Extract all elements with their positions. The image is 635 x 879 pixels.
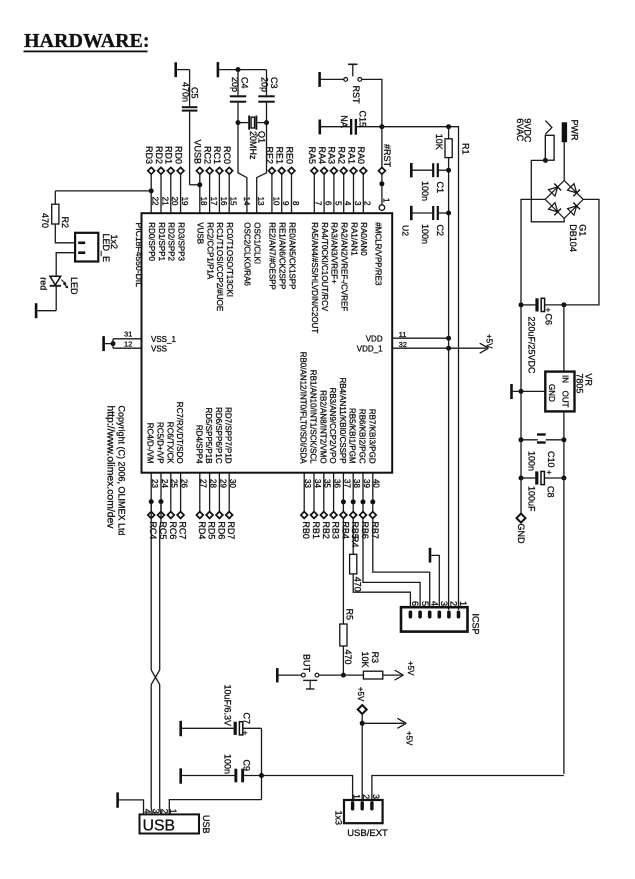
svg-text:RD3: RD3 <box>144 146 154 164</box>
svg-text:10K: 10K <box>360 652 370 668</box>
junction RC5 wire <box>159 499 164 504</box>
bridge diode D2 (top to right) <box>567 184 580 197</box>
svg-text:RD1/SPP1: RD1/SPP1 <box>157 222 166 261</box>
IC pin 25 (RC6/TX/CK) <box>165 422 178 540</box>
gnd rail C6 to C10 <box>520 305 522 440</box>
IC pin 7 (RA5/AN4/#SS/HLVDIN/C2OUT) <box>307 146 323 333</box>
IC pin 1 (#MCLR/VPP/RE3) <box>374 184 391 286</box>
svg-text:VSS_1: VSS_1 <box>151 335 176 344</box>
svg-text:RD0/SPP0: RD0/SPP0 <box>147 222 156 261</box>
svg-text:RB3: RB3 <box>331 521 341 539</box>
svg-text:PWR: PWR <box>569 120 579 141</box>
svg-text:+5V: +5V <box>406 661 415 676</box>
junction pin22 <box>149 188 154 193</box>
svg-text:10K: 10K <box>434 134 444 150</box>
svg-text:7: 7 <box>314 201 323 206</box>
power jack PWR <box>545 120 579 161</box>
ground LED <box>36 286 56 318</box>
svg-text:OSC2/CLKO/RA6: OSC2/CLKO/RA6 <box>243 222 252 286</box>
IC pin 2 (RA0/AN0) <box>356 146 372 256</box>
svg-text:RC1/T1OSI/CCP2/#UOE: RC1/T1OSI/CCP2/#UOE <box>215 222 224 311</box>
svg-text:RA5: RA5 <box>307 146 317 164</box>
junction VUSB/C5 <box>197 182 202 187</box>
label G1 DB104 <box>568 224 587 252</box>
svg-text:#RST: #RST <box>382 144 392 168</box>
IC pin 21 (RD1/SPP1) <box>154 146 170 262</box>
wire RB6 to ICSP pin5 <box>363 518 420 608</box>
svg-text:RC7/RX/DT/SDO: RC7/RX/DT/SDO <box>175 402 184 464</box>
svg-text:3: 3 <box>353 201 362 206</box>
ground VR <box>512 384 546 399</box>
svg-text:RB0/AN12/INT0/FLT0/SDI/SDA: RB0/AN12/INT0/FLT0/SDI/SDA <box>299 352 308 465</box>
svg-text:2: 2 <box>361 794 371 799</box>
svg-text:RD2: RD2 <box>154 146 164 164</box>
wire C7 to +5V node <box>261 728 263 799</box>
svg-text:R1: R1 <box>461 143 471 155</box>
wire +5V to USB/EXT pin1 <box>262 776 353 801</box>
svg-text:7805: 7805 <box>574 373 584 393</box>
svg-text:RB3/AN9/CCP2/VPO: RB3/AN9/CCP2/VPO <box>328 388 337 464</box>
svg-text:RB4: RB4 <box>340 521 350 539</box>
IC pin 35 (RB2/AN8/INT2/VMO) <box>318 390 331 539</box>
wire BUT to R3 <box>319 674 364 676</box>
IC pin 13 (OSC1/CLKI) <box>253 197 266 265</box>
svg-text:C9: C9 <box>242 760 252 772</box>
svg-text:34: 34 <box>313 479 322 488</box>
svg-text:RA2: RA2 <box>337 146 347 164</box>
svg-text:RC4/D-/VM: RC4/D-/VM <box>146 423 155 464</box>
junction C1/+5V rail <box>446 168 451 173</box>
svg-text:RD2/SPP2: RD2/SPP2 <box>167 222 176 261</box>
connector LED_E 1x2 <box>75 233 119 262</box>
wire bridge plus to C6 node <box>564 199 599 305</box>
IC pin 22 (RD0/SPP0) <box>144 146 160 262</box>
junction RB4 wire <box>341 499 346 504</box>
svg-text:RB6/KBI2/PGC: RB6/KBI2/PGC <box>358 409 367 464</box>
svg-text:11: 11 <box>399 330 407 339</box>
ground C9 <box>181 768 235 783</box>
svg-text:U2: U2 <box>401 225 411 236</box>
ground C1 <box>411 163 432 177</box>
svg-text:RST: RST <box>351 86 361 105</box>
svg-text:VSS: VSS <box>151 345 167 354</box>
wire +5V right segment <box>372 776 564 801</box>
svg-text:21: 21 <box>160 197 169 206</box>
svg-text:R4: R4 <box>350 536 360 548</box>
svg-text:25: 25 <box>170 479 179 488</box>
svg-text:RC7: RC7 <box>178 521 188 539</box>
ground BUT <box>277 668 301 682</box>
junction crystal right <box>264 120 269 125</box>
IC pin 11 VDD wire <box>366 330 451 343</box>
svg-text:39: 39 <box>362 479 371 488</box>
pushbutton BUT <box>301 654 319 689</box>
svg-text:8: 8 <box>291 201 300 206</box>
svg-text:2: 2 <box>160 809 170 814</box>
IC U2 designator label <box>401 225 411 236</box>
svg-text:R2: R2 <box>60 217 70 229</box>
svg-text:OUT: OUT <box>561 391 570 408</box>
svg-text:470: 470 <box>343 650 353 665</box>
svg-text:29: 29 <box>218 479 227 488</box>
wire R2 to LED_E pin1 <box>55 224 75 243</box>
wire pin22 to R2 <box>55 191 151 204</box>
IC pin 4 (RA2/AN2/VREF-/CVREF) <box>337 146 353 311</box>
svg-text:RE0/AN5/CK1SPP: RE0/AN5/CK1SPP <box>287 222 296 289</box>
svg-text:RB5/KBI1/PGM: RB5/KBI1/PGM <box>348 408 357 464</box>
IC pin 15 (RC0/T1OSO/T13CKI) <box>222 146 238 297</box>
svg-text:RE2/AN7/#OESPP: RE2/AN7/#OESPP <box>268 222 277 290</box>
svg-text:16: 16 <box>219 197 228 206</box>
capacitor C1 100n <box>420 163 449 201</box>
svg-text:470n: 470n <box>181 82 191 102</box>
svg-text:40: 40 <box>372 479 381 488</box>
svg-text:+5V: +5V <box>356 687 365 702</box>
ground ICSP pin3 <box>430 548 439 609</box>
wire crossover X <box>151 670 160 685</box>
svg-text:22: 22 <box>151 197 160 206</box>
IC pin 38 (RB5/KBI1/PGM) <box>348 408 361 539</box>
wire RB7 to ICSP pin4 <box>373 518 430 608</box>
svg-text:RC6/TX/CK: RC6/TX/CK <box>165 422 174 464</box>
junction RB6 wire <box>361 499 366 504</box>
junction C4 top <box>236 67 241 72</box>
svg-text:RC2/CCP1/P1A: RC2/CCP1/P1A <box>205 222 214 280</box>
svg-text:9VDC: 9VDC <box>523 118 533 143</box>
wire bridge minus to GND rail <box>521 199 545 305</box>
svg-text:RB0: RB0 <box>301 521 311 539</box>
svg-text:27: 27 <box>199 479 208 488</box>
IC pin 27 (RD4/SPP4) <box>194 425 207 540</box>
svg-text:100uF: 100uF <box>526 486 536 512</box>
svg-text:23: 23 <box>150 479 159 488</box>
svg-text:RC4: RC4 <box>148 521 158 539</box>
resistor R1 10K <box>434 127 470 610</box>
wire PWR tip to bridge AC1 <box>563 142 565 182</box>
svg-text:3: 3 <box>439 601 449 606</box>
IC pin 19 (RD3/SPP3) <box>173 146 189 262</box>
resistor R4 470 (RB5 to ICSP pin6) <box>350 518 411 608</box>
capacitor C10 100n <box>521 433 564 471</box>
svg-text:28: 28 <box>209 479 218 488</box>
junction C6 right <box>561 302 566 307</box>
IC pin 40 (RB7/KBI3/PGD) <box>367 409 380 539</box>
svg-text:36: 36 <box>333 479 342 488</box>
svg-text:C10: C10 <box>546 451 556 468</box>
wire crystal to OSC1 pin13 <box>257 123 267 214</box>
net label GND <box>516 478 526 544</box>
svg-text:17: 17 <box>209 197 218 206</box>
svg-text:GND: GND <box>516 524 526 545</box>
svg-text:RB7/KBI3/PGD: RB7/KBI3/PGD <box>367 409 376 464</box>
svg-text:100n: 100n <box>420 224 430 244</box>
svg-text:100n: 100n <box>526 451 536 471</box>
svg-text:5: 5 <box>420 601 430 606</box>
svg-text:RE1: RE1 <box>275 146 285 164</box>
IC pin 36 (RB3/AN9/CCP2/VPO) <box>328 388 341 539</box>
svg-text:RD5: RD5 <box>207 521 217 539</box>
svg-text:C15: C15 <box>358 111 368 128</box>
svg-text:RB1/AN10/INT1/SCK/SCL: RB1/AN10/INT1/SCK/SCL <box>309 370 318 464</box>
svg-text:26: 26 <box>180 479 189 488</box>
svg-text:24: 24 <box>160 479 169 488</box>
ground C7 <box>181 721 234 736</box>
svg-text:R3: R3 <box>370 652 380 664</box>
junction #RST node <box>379 124 384 129</box>
resistor R3 10K <box>360 652 383 680</box>
junction BUT/R5/R3 <box>341 673 346 678</box>
svg-text:RE0: RE0 <box>284 146 294 164</box>
svg-text:C6: C6 <box>543 314 553 326</box>
svg-text:1: 1 <box>458 601 468 606</box>
capacitor C8 100uF <box>521 467 564 512</box>
svg-text:RB6: RB6 <box>360 521 370 539</box>
wire LED_E pin2 to LED <box>56 253 75 277</box>
svg-text:RD5/SPP5/P1B: RD5/SPP5/P1B <box>204 408 213 464</box>
IC pin 3 (RA1/AN1) <box>346 146 362 256</box>
svg-text:30: 30 <box>228 479 237 488</box>
svg-text:red: red <box>38 277 48 290</box>
svg-text:RB2: RB2 <box>321 521 331 539</box>
IC pin 30 (RD7/SPP7/P1D) <box>224 407 237 539</box>
svg-text:RA5/AN4/#SS/HLVDIN/C2OUT: RA5/AN4/#SS/HLVDIN/C2OUT <box>310 222 319 333</box>
svg-text:C2: C2 <box>435 225 445 237</box>
wire VBUS USB pin1 <box>169 800 261 815</box>
svg-text:VDD: VDD <box>366 334 383 343</box>
svg-text:#MCLR/VPP/RE3: #MCLR/VPP/RE3 <box>374 222 383 286</box>
IC pin 20 (RD2/SPP2) <box>164 146 180 262</box>
junction C10 left <box>519 437 524 442</box>
svg-text:HARDWARE:: HARDWARE: <box>24 30 150 52</box>
svg-text:2: 2 <box>363 201 372 206</box>
svg-text:C8: C8 <box>546 486 556 498</box>
svg-text:OSC1/CLKI: OSC1/CLKI <box>253 222 262 264</box>
wire RST to #RST rail <box>362 79 382 126</box>
svg-text:6: 6 <box>324 201 333 206</box>
IC pin 5 (RA3/AN3/VREF+) <box>327 146 343 284</box>
svg-text:RA0/AN0: RA0/AN0 <box>359 222 368 256</box>
svg-text:RD7/SPP7/P1D: RD7/SPP7/P1D <box>224 407 233 464</box>
IC pin 14 (OSC2/CLKO/RA6) <box>242 197 252 287</box>
IC pin 37 (RB4/AN11/KBI0/CSSPP) <box>338 377 351 538</box>
bridge diode D3 (left to bottom) <box>548 203 561 216</box>
svg-text:C7: C7 <box>242 713 252 725</box>
svg-text:BUT: BUT <box>302 654 312 673</box>
svg-text:IN: IN <box>561 375 570 383</box>
svg-text:37: 37 <box>342 479 351 488</box>
label 9VDC 6VAC <box>515 118 533 143</box>
svg-text:19: 19 <box>180 197 189 206</box>
svg-text:RB4/AN11/KBI0/CSSPP: RB4/AN11/KBI0/CSSPP <box>338 377 347 463</box>
svg-text:RE1/AN6/CK2SPP: RE1/AN6/CK2SPP <box>278 222 287 289</box>
IC pin 17 (RC2/CCP1/P1A) <box>202 146 218 280</box>
capacitor C3 20p <box>258 70 279 123</box>
IC pin 9 (RE1/AN6/CK2SPP) <box>275 146 291 289</box>
svg-text:RC5/D+/VP: RC5/D+/VP <box>156 422 165 464</box>
svg-text:RC2: RC2 <box>202 146 212 164</box>
junction RC4 wire <box>149 499 154 504</box>
svg-text:32: 32 <box>399 340 407 349</box>
svg-text:RD6: RD6 <box>216 521 226 539</box>
junction C2/+5V rail <box>446 211 451 216</box>
svg-text:20: 20 <box>170 197 179 206</box>
wire +5V arrow (USB/EXT) <box>362 718 413 746</box>
capacitor C9 100n <box>223 754 262 782</box>
svg-text:RD7: RD7 <box>226 521 236 539</box>
svg-text:100n: 100n <box>420 181 430 201</box>
svg-text:NA: NA <box>339 115 349 128</box>
svg-text:USB: USB <box>201 815 211 834</box>
svg-text:2: 2 <box>449 601 459 606</box>
title HARDWARE <box>24 30 150 52</box>
ground RST <box>320 72 344 87</box>
junction RB7 wire <box>370 499 375 504</box>
svg-text:1x2: 1x2 <box>109 235 119 250</box>
svg-text:RB1: RB1 <box>311 521 321 539</box>
svg-text:ICSP: ICSP <box>471 614 481 635</box>
svg-text:12: 12 <box>124 340 132 349</box>
svg-text:RA3/AN3/VREF+: RA3/AN3/VREF+ <box>330 222 339 284</box>
capacitor C15 NA <box>339 111 382 135</box>
svg-text:6: 6 <box>410 601 420 606</box>
wire gnd to C3 <box>238 69 267 71</box>
svg-text:20p: 20p <box>230 77 240 92</box>
junction R1 top <box>446 124 451 129</box>
junction RB5 wire <box>351 499 356 504</box>
IC pin 33 (RB0/AN12/INT0/FLT0/SDI/SDA) <box>299 352 312 539</box>
IC pin 28 (RD5/SPP5/P1B) <box>204 408 217 540</box>
junction +5V USB/EXT <box>360 721 365 726</box>
copyright text <box>104 406 126 536</box>
svg-text:RC0/T1OSO/T13CKI: RC0/T1OSO/T13CKI <box>225 222 234 297</box>
wire VR OUT down <box>563 411 565 774</box>
bridge diode D1 (left to top) <box>548 184 561 197</box>
junction C8 right <box>561 476 566 481</box>
wire C6 to VR IN <box>563 305 565 372</box>
svg-text:4: 4 <box>429 601 439 606</box>
connector USB/EXT 1x3 <box>333 794 388 839</box>
svg-text:470: 470 <box>353 577 363 592</box>
resistor R5 470 (RB4) <box>340 518 355 675</box>
svg-text:470: 470 <box>40 213 50 228</box>
svg-text:RB2/AN8/INT2/VMO: RB2/AN8/INT2/VMO <box>318 390 327 463</box>
svg-text:RD1: RD1 <box>164 146 174 164</box>
svg-text:9: 9 <box>281 201 290 206</box>
svg-text:USB/EXT: USB/EXT <box>347 828 388 839</box>
svg-text:20MHz: 20MHz <box>248 131 258 160</box>
svg-text:RA4: RA4 <box>317 146 327 164</box>
svg-text:20p: 20p <box>260 77 270 92</box>
svg-text:+5V: +5V <box>485 334 494 349</box>
svg-text:Copyright (C) 2006, OLIMEX Ltd: Copyright (C) 2006, OLIMEX Ltd <box>117 406 127 536</box>
svg-text:RD4: RD4 <box>197 521 207 539</box>
svg-text:15: 15 <box>229 197 238 206</box>
svg-text:100n: 100n <box>223 754 233 774</box>
svg-text:3: 3 <box>151 809 161 814</box>
svg-text:4: 4 <box>142 809 152 814</box>
wire RC4/D- to USB <box>150 502 152 670</box>
IC pin 24 (RC5/D+/VP) <box>156 422 169 539</box>
svg-text:http://www.olimex.com/dev: http://www.olimex.com/dev <box>104 406 115 530</box>
svg-text:1: 1 <box>168 809 178 814</box>
svg-text:VUSB: VUSB <box>193 139 203 164</box>
IC pin 32 VDD_1 wire and +5V arrow <box>357 334 494 353</box>
ground C4/C3 <box>218 62 238 77</box>
svg-text:C3: C3 <box>269 77 279 89</box>
IC pin 18 (VUSB) <box>193 139 209 244</box>
svg-text:RA0: RA0 <box>356 146 366 164</box>
svg-text:R5: R5 <box>345 609 355 621</box>
svg-text:1x3: 1x3 <box>333 811 343 826</box>
bridge rectifier G1 DB104 diamond <box>545 180 583 218</box>
svg-text:RA3: RA3 <box>327 146 337 164</box>
gnd rail C10 to C8 <box>520 440 522 478</box>
IC pin 26 (RC7/RX/DT/SDO) <box>175 402 188 540</box>
ground C15 <box>320 120 350 135</box>
svg-text:18: 18 <box>199 197 208 206</box>
svg-text:3: 3 <box>371 794 381 799</box>
svg-text:C1: C1 <box>435 182 445 194</box>
resistor R2 470 <box>40 204 70 228</box>
junction PWR sleeve <box>543 158 548 163</box>
svg-text:13: 13 <box>256 197 265 206</box>
IC pin 10 (RE2/AN7/#OESPP) <box>265 146 281 289</box>
wire RC5/D+ to USB <box>160 502 161 670</box>
svg-text:VDD_1: VDD_1 <box>357 344 383 353</box>
svg-text:33: 33 <box>303 479 312 488</box>
ground C5 <box>176 62 190 77</box>
IC pin 16 (RC1/T1OSI/CCP2/#UOE) <box>212 146 228 311</box>
capacitor C2 100n <box>420 206 449 244</box>
svg-text:31: 31 <box>124 330 132 339</box>
svg-text:RD6/SPP6/P1C: RD6/SPP6/P1C <box>214 407 223 464</box>
svg-text:4: 4 <box>343 201 352 206</box>
net label #RST <box>379 127 392 187</box>
svg-text:10: 10 <box>271 197 280 206</box>
svg-text:35: 35 <box>323 479 332 488</box>
svg-text:5: 5 <box>333 201 342 206</box>
junction C6 left <box>519 302 524 307</box>
svg-text:GND: GND <box>547 384 556 402</box>
svg-text:RC1: RC1 <box>212 146 222 164</box>
wire sleeve to bridge AC2 <box>531 160 564 222</box>
IC pin 6 (RA4/T0CKI/C1OUT/RCV) <box>317 146 333 311</box>
junction C10 right <box>561 437 566 442</box>
svg-text:RA2/AN2/VREF-/CVREF: RA2/AN2/VREF-/CVREF <box>340 222 349 311</box>
capacitor C5 470n <box>181 70 200 185</box>
bridge diode D4 (bottom to right) <box>567 203 580 216</box>
svg-text:1: 1 <box>352 794 362 799</box>
svg-text:RD3/SPP3: RD3/SPP3 <box>176 222 185 261</box>
voltage regulator VR 7805 <box>545 372 593 412</box>
svg-text:220uF/25VDC: 220uF/25VDC <box>527 317 537 375</box>
svg-text:RB7: RB7 <box>370 521 380 539</box>
svg-text:+: + <box>243 727 248 737</box>
wire R3 to +5V arrow <box>383 661 415 680</box>
junction VR gnd rail <box>519 389 524 394</box>
wire #RST line to rails <box>382 127 459 610</box>
ground USB pin4 <box>118 792 144 814</box>
svg-text:RA1: RA1 <box>346 146 356 164</box>
svg-text:DB104: DB104 <box>568 224 578 252</box>
capacitor C6 220uF/25VDC <box>521 298 564 374</box>
net label +5V (USB/EXT) <box>356 687 367 723</box>
pushbutton RST <box>344 64 362 104</box>
svg-text:RD0: RD0 <box>173 146 183 164</box>
junction C8 left <box>519 476 524 481</box>
junction C9/+5V <box>259 773 264 778</box>
ground C2 <box>411 206 432 220</box>
